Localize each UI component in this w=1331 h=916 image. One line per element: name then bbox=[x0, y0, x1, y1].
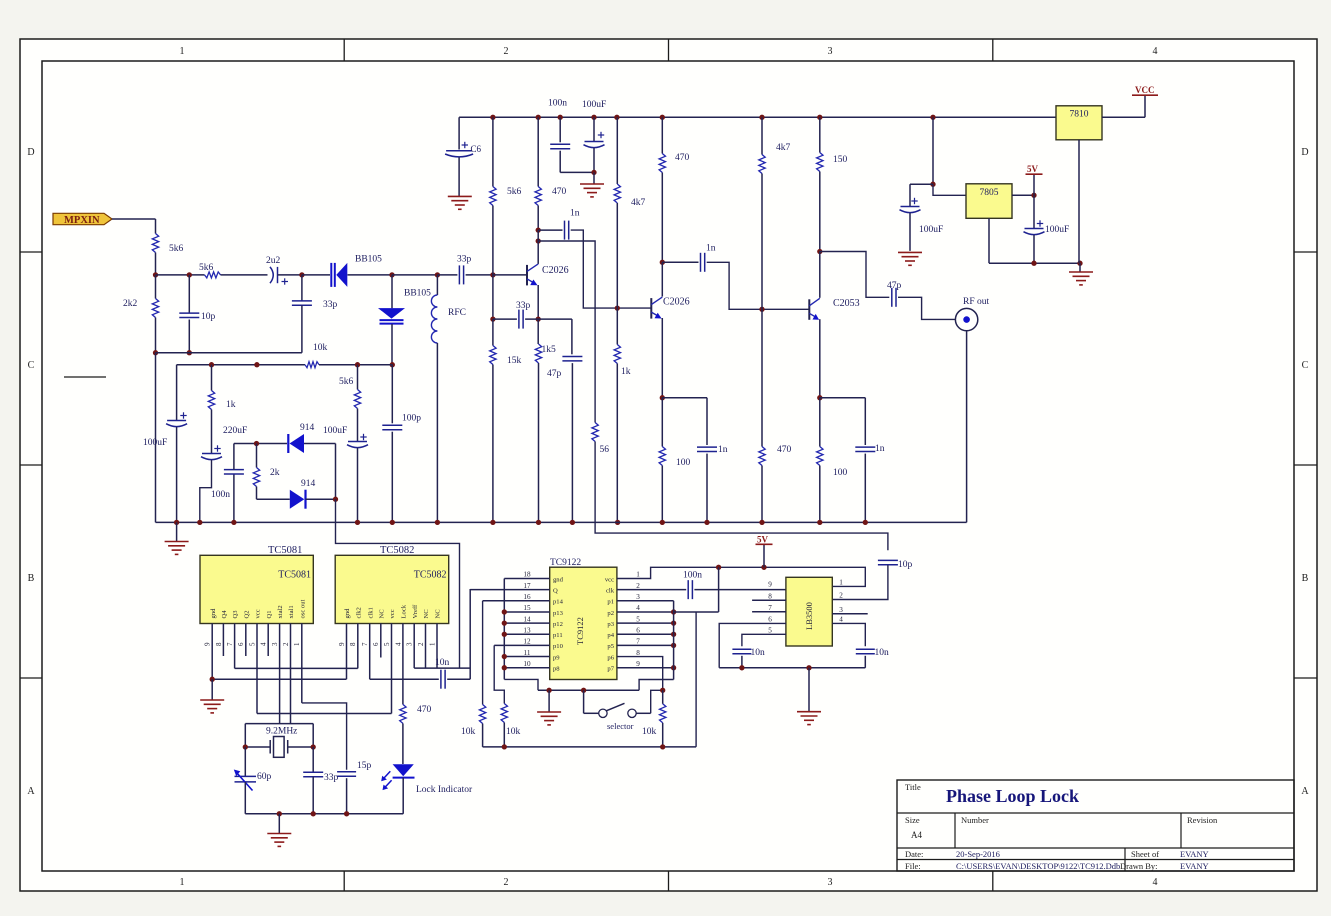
LED lock indicator bbox=[381, 764, 414, 790]
junction dot bbox=[153, 272, 158, 277]
junction dot bbox=[490, 316, 495, 321]
wire p10 to R 10k bbox=[494, 645, 504, 703]
wire TC9122 p3 bbox=[617, 622, 674, 624]
capacitor 10p sample bbox=[878, 560, 898, 564]
svg-text:1: 1 bbox=[839, 579, 843, 587]
wire regulator ground bbox=[989, 262, 1080, 264]
resistor 1k5 bbox=[535, 344, 541, 363]
wire 2u2 to node bbox=[278, 274, 302, 276]
svg-text:B: B bbox=[28, 573, 35, 584]
svg-text:100: 100 bbox=[676, 458, 691, 468]
junction dot bbox=[817, 249, 822, 254]
svg-text:100uF: 100uF bbox=[323, 426, 347, 436]
wire Vreff NC bus bbox=[414, 667, 470, 669]
junction dot bbox=[390, 520, 395, 525]
wire LB3500 pin 6 to bypass bus bbox=[719, 623, 786, 667]
wire 33p to 47p corner bbox=[525, 318, 572, 320]
wire crystal gnd stem bbox=[278, 814, 280, 833]
svg-text:470: 470 bbox=[552, 187, 567, 197]
wire 10n to bypass bus bbox=[864, 656, 866, 668]
junction dot bbox=[209, 362, 214, 367]
svg-text:1n: 1n bbox=[875, 444, 885, 454]
junction dot bbox=[536, 115, 541, 120]
wire 100n down bbox=[559, 151, 561, 173]
svg-text:B: B bbox=[1302, 573, 1309, 584]
capacitor 100uF left bbox=[166, 412, 187, 426]
junction dot bbox=[187, 272, 192, 277]
svg-text:4k7: 4k7 bbox=[776, 143, 791, 153]
svg-text:914: 914 bbox=[301, 479, 316, 489]
svg-text:2k: 2k bbox=[270, 468, 280, 478]
wire node to C 1n bbox=[538, 229, 562, 231]
svg-text:100uF: 100uF bbox=[582, 100, 606, 110]
resistor 470 lock LED bbox=[400, 704, 406, 723]
wire node to C 100uF reg in bbox=[910, 183, 933, 185]
svg-text:150: 150 bbox=[833, 155, 848, 165]
ground regulators bbox=[1069, 272, 1093, 285]
svg-text:Q1: Q1 bbox=[266, 610, 273, 618]
svg-text:10n: 10n bbox=[751, 648, 766, 658]
capacitor 1n bypass Q3 bbox=[855, 447, 875, 451]
resistor 4k7 Q2 base bbox=[614, 184, 620, 203]
junction dot bbox=[817, 115, 822, 120]
svg-text:9: 9 bbox=[338, 642, 346, 646]
svg-text:clk2: clk2 bbox=[355, 607, 362, 618]
svg-text:EVANY: EVANY bbox=[1180, 849, 1209, 859]
svg-text:7: 7 bbox=[768, 604, 772, 612]
ground LB3500 bbox=[797, 712, 821, 725]
wire node to Q1 base bbox=[493, 274, 527, 276]
junction dot bbox=[299, 272, 304, 277]
wire xtal left down bbox=[244, 724, 246, 747]
wire node to C 10p bbox=[188, 275, 190, 313]
wire 1k to ground bus bbox=[616, 364, 618, 523]
svg-text:p1: p1 bbox=[607, 599, 614, 606]
wire TC9122 p7 bbox=[617, 667, 674, 669]
connector RF out bbox=[955, 308, 977, 330]
wire 10p to LB3500 pin 2 bbox=[832, 565, 888, 600]
wire rail to R 470 bbox=[537, 117, 539, 186]
svg-text:5: 5 bbox=[248, 642, 256, 646]
wire 10p to node bbox=[188, 320, 190, 353]
wire BB105 to node bbox=[391, 324, 393, 365]
capacitor 100n decoupling bbox=[550, 144, 570, 148]
wire 1n to Q2 base bbox=[571, 230, 652, 308]
svg-text:C: C bbox=[1302, 360, 1309, 371]
capacitor 100uF reg output bbox=[1024, 220, 1045, 234]
junction dot bbox=[435, 520, 440, 525]
junction dot bbox=[536, 227, 541, 232]
svg-text:5: 5 bbox=[768, 627, 772, 635]
junction dot bbox=[660, 260, 665, 265]
wire row to C 47p bbox=[571, 319, 573, 354]
zone tick left bbox=[20, 464, 42, 466]
junction dot bbox=[153, 350, 158, 355]
power 5V bbox=[1026, 173, 1043, 175]
junction dot bbox=[671, 620, 676, 625]
svg-text:17: 17 bbox=[523, 582, 531, 590]
junction dot bbox=[210, 677, 215, 682]
svg-text:Date:: Date: bbox=[905, 849, 923, 859]
svg-text:470: 470 bbox=[675, 153, 690, 163]
junction dot bbox=[581, 688, 586, 693]
svg-text:2: 2 bbox=[636, 582, 640, 590]
wire Q3 collector to C 47p out bbox=[820, 252, 890, 298]
wire TC5081 gnd to TC5082 gnd bbox=[212, 678, 346, 680]
junction dot bbox=[759, 520, 764, 525]
svg-text:8: 8 bbox=[215, 642, 223, 646]
svg-text:5: 5 bbox=[636, 615, 640, 623]
svg-text:1: 1 bbox=[428, 642, 436, 646]
capacitor C6 100uF bbox=[445, 142, 473, 157]
wire select bus bbox=[538, 689, 639, 691]
svg-text:TC5082: TC5082 bbox=[380, 545, 414, 556]
wire node to Q1 collector bbox=[537, 230, 539, 263]
power VCC bbox=[1132, 94, 1158, 96]
svg-text:100n: 100n bbox=[683, 571, 702, 581]
svg-text:1n: 1n bbox=[570, 209, 580, 219]
wire 4k7 to Q2 base node bbox=[616, 203, 618, 308]
zone tick right bbox=[1294, 677, 1317, 679]
svg-text:15: 15 bbox=[523, 604, 531, 612]
wire node to Q2 collector bbox=[661, 262, 663, 296]
svg-text:p2: p2 bbox=[607, 610, 614, 617]
capacitor 2u2 polarized bbox=[270, 267, 288, 285]
varactor diode BB105 shunt bbox=[378, 308, 405, 324]
wire 5k6 to C 2u2 bbox=[221, 274, 268, 276]
wire 100n to LB3500 pin 9 bbox=[694, 589, 786, 591]
junction dot bbox=[591, 115, 596, 120]
capacitor 100uF decoupling bbox=[584, 132, 605, 148]
wire Q riser bbox=[469, 589, 471, 679]
junction dot bbox=[671, 632, 676, 637]
wire 10n to Q riser bbox=[447, 678, 470, 680]
wire RF socket shield to ground bus bbox=[966, 331, 968, 523]
wire clk1 to C 10n bbox=[370, 678, 439, 680]
wire 1n to Q3 base bbox=[707, 262, 810, 309]
resistor 100 emitter Q3 bbox=[817, 447, 823, 466]
port MPXIN bbox=[53, 213, 112, 226]
wire to switch pole bbox=[584, 712, 599, 714]
wire TC5081 pin 7 Q3 bbox=[234, 623, 236, 668]
svg-text:Title: Title bbox=[905, 782, 921, 792]
wire LB3500 pin 5 to C 10n bbox=[742, 634, 786, 646]
svg-text:12: 12 bbox=[523, 638, 531, 646]
junction dot bbox=[759, 115, 764, 120]
junction dot bbox=[311, 744, 316, 749]
zone tick bottom bbox=[992, 871, 994, 891]
wire base node down to R 470 bbox=[761, 309, 763, 446]
wire y=365 row left bbox=[177, 364, 305, 366]
junction dot bbox=[671, 643, 676, 648]
capacitor 33p xtal bbox=[303, 772, 323, 776]
svg-text:TC9122: TC9122 bbox=[550, 558, 581, 568]
transistor Q1 C2026 bbox=[527, 264, 569, 286]
wire node to R 56 bbox=[538, 241, 595, 423]
wire Q2 emitter down bbox=[661, 318, 663, 398]
svg-text:33p: 33p bbox=[516, 301, 531, 311]
wire TC5081 pin 5 vcc bbox=[256, 623, 258, 713]
wire node to C 1n bypass Q3 bbox=[820, 397, 866, 399]
svg-text:2k2: 2k2 bbox=[123, 299, 138, 309]
svg-text:10p: 10p bbox=[201, 312, 216, 322]
svg-text:Vreff: Vreff bbox=[412, 604, 419, 619]
resistor 470 collector Q1 bbox=[535, 187, 541, 206]
svg-text:vcc: vcc bbox=[605, 576, 614, 583]
resistor 5k6 input bbox=[152, 234, 158, 253]
wire ground stem bbox=[1079, 263, 1081, 271]
IC U LB3500 bbox=[786, 577, 832, 646]
svg-text:6: 6 bbox=[768, 616, 772, 624]
wire TC5081 pin 1 osc out bbox=[301, 623, 303, 703]
svg-text:C2053: C2053 bbox=[833, 298, 860, 309]
regulator U 7810 bbox=[1056, 106, 1102, 140]
svg-text:TC5082: TC5082 bbox=[414, 570, 447, 581]
diode 914 upper bbox=[288, 434, 304, 453]
wire switch to p6 line bbox=[651, 690, 663, 713]
junction dot bbox=[671, 609, 676, 614]
svg-text:5k6: 5k6 bbox=[507, 187, 522, 197]
wire node to C 33p xtal bbox=[312, 747, 314, 772]
junction dot bbox=[591, 170, 596, 175]
svg-text:470: 470 bbox=[417, 705, 432, 715]
wire 470 to LED bbox=[402, 723, 404, 764]
wire TC9122 p1 bbox=[617, 600, 674, 602]
svg-text:p7: p7 bbox=[607, 666, 614, 673]
wire crystal right bbox=[288, 746, 314, 748]
wire xtal right down bbox=[312, 724, 314, 747]
wire down to C 1n Q3 bbox=[864, 398, 866, 445]
capacitor 10n LB pin5 bbox=[732, 649, 751, 653]
wire TC5081 pin 6 Q2 stub bbox=[245, 623, 247, 656]
IC U TC9122 bbox=[550, 567, 617, 679]
svg-text:p11: p11 bbox=[553, 632, 563, 639]
wire rail to R 470 Q2 bbox=[661, 117, 663, 153]
svg-text:2: 2 bbox=[417, 642, 425, 646]
svg-text:1: 1 bbox=[180, 46, 185, 57]
svg-text:4: 4 bbox=[394, 642, 402, 646]
wire 100uF down bbox=[593, 148, 595, 172]
wire TC5082 pin 1 NC bbox=[436, 623, 438, 668]
wire right riser to select bus bbox=[639, 680, 674, 691]
wire TC9122 pin 18 gnd bbox=[504, 578, 549, 580]
svg-text:33p: 33p bbox=[324, 773, 339, 783]
wire 7805 ground pin bbox=[988, 218, 990, 263]
svg-text:100uF: 100uF bbox=[1045, 225, 1069, 235]
resistor 2k2 bbox=[152, 299, 158, 318]
wire 10k to pullup bus bbox=[482, 724, 484, 747]
resistor 5k6 shunt bbox=[354, 390, 360, 409]
wire node to R 100 bbox=[661, 398, 663, 447]
ground crystal bbox=[267, 834, 291, 847]
wire y=365 row right bbox=[319, 364, 392, 366]
wire row to R 5k6 shunt bbox=[357, 365, 359, 390]
capacitor 100uF mid bbox=[347, 434, 368, 448]
resistor 1k bbox=[208, 391, 214, 410]
wire select bus to switch bbox=[583, 690, 585, 713]
wire node to R 1k bbox=[616, 308, 618, 344]
wire 100n to diode row bbox=[233, 444, 235, 470]
wire Q3 to clk2 bbox=[235, 667, 358, 669]
capacitor 33p emitter bbox=[519, 310, 523, 329]
svg-text:3: 3 bbox=[828, 877, 833, 888]
svg-text:5: 5 bbox=[383, 642, 391, 646]
wire 2k to row B bbox=[256, 487, 258, 500]
svg-text:10k: 10k bbox=[642, 727, 657, 737]
wire TC5082 pin 4 Lock bbox=[402, 623, 404, 704]
junction dot bbox=[311, 811, 316, 816]
svg-text:4: 4 bbox=[636, 604, 640, 612]
svg-text:RFC: RFC bbox=[448, 308, 466, 318]
capacitor 10n LB pin4 bbox=[856, 649, 875, 653]
svg-text:A: A bbox=[1301, 786, 1309, 797]
svg-text:p8: p8 bbox=[553, 666, 560, 673]
svg-text:8: 8 bbox=[636, 649, 640, 657]
junction dot bbox=[660, 744, 665, 749]
wire osc out to C 15p bbox=[302, 703, 347, 770]
svg-text:EVANY: EVANY bbox=[1180, 861, 1209, 871]
wire rail to R 4k7 Q3 bbox=[761, 117, 763, 154]
wire stub left margin bbox=[64, 376, 106, 378]
svg-text:9: 9 bbox=[204, 642, 212, 646]
wire down to ground bus bbox=[155, 353, 157, 523]
junction dot bbox=[660, 115, 665, 120]
svg-text:C2026: C2026 bbox=[663, 297, 690, 308]
svg-text:3: 3 bbox=[636, 593, 640, 601]
svg-text:File:: File: bbox=[905, 861, 921, 871]
wire BB105 to node bbox=[348, 274, 393, 276]
svg-text:1k5: 1k5 bbox=[542, 345, 557, 355]
wire diode row B left bbox=[257, 498, 290, 500]
capacitor 33p coupling bbox=[459, 265, 463, 284]
svg-text:Q2: Q2 bbox=[243, 610, 250, 618]
resistor 100 emitter Q2 bbox=[659, 447, 665, 466]
IC U TC5081 bbox=[200, 555, 313, 623]
svg-text:220uF: 220uF bbox=[223, 426, 247, 436]
capacitor 10p bbox=[179, 313, 199, 317]
svg-text:5k6: 5k6 bbox=[169, 244, 184, 254]
wire TC9122 pin 10 p8 bbox=[504, 667, 549, 669]
wire bypass bus gnd stem bbox=[808, 668, 810, 711]
resistor 5k6 bias bbox=[490, 187, 496, 206]
wire TC9122 p4 bbox=[617, 633, 674, 635]
wire 4k7 to Q3 base node bbox=[761, 174, 763, 310]
svg-text:C2026: C2026 bbox=[542, 265, 569, 276]
capacitor 47p emitter bbox=[562, 357, 582, 361]
wire rail to R 150 bbox=[819, 117, 821, 152]
junction dot bbox=[490, 115, 495, 120]
junction dot bbox=[502, 609, 507, 614]
wire diode row B right bbox=[306, 498, 336, 500]
junction dot bbox=[558, 115, 563, 120]
wire TC9122 pin 13 p11 bbox=[504, 633, 549, 635]
svg-text:2: 2 bbox=[504, 46, 509, 57]
ground main bus bbox=[165, 542, 189, 555]
wire node to C 1n bypass bbox=[662, 397, 707, 399]
wire xtal top bbox=[245, 723, 313, 725]
wire 470 to collector node bbox=[661, 173, 663, 263]
svg-text:3: 3 bbox=[271, 642, 279, 646]
wire 7810 ground pin bbox=[1078, 140, 1080, 263]
wire node to Q3 collector bbox=[819, 252, 821, 298]
wire 15p to crystal bus bbox=[346, 778, 348, 814]
wire MPXIN to R 5k6 bbox=[112, 218, 156, 220]
wire y=353 row bbox=[156, 352, 302, 354]
svg-text:1: 1 bbox=[636, 571, 640, 579]
svg-text:LB3500: LB3500 bbox=[804, 602, 814, 630]
svg-text:10p: 10p bbox=[898, 560, 913, 570]
junction dot bbox=[863, 520, 868, 525]
wire TC5082 pin 5 vcc bbox=[391, 623, 393, 713]
zone tick left bbox=[20, 677, 42, 679]
wire 100 to ground bus bbox=[819, 466, 821, 523]
wire diode row A left bbox=[234, 443, 287, 445]
junction dot bbox=[660, 688, 665, 693]
svg-text:10k: 10k bbox=[461, 727, 476, 737]
svg-text:3: 3 bbox=[828, 46, 833, 57]
junction dot bbox=[174, 520, 179, 525]
wire 47p to RF socket bbox=[898, 297, 955, 319]
resistor 10k p14 bbox=[479, 705, 485, 724]
svg-text:6: 6 bbox=[636, 626, 640, 634]
svg-text:47p: 47p bbox=[887, 281, 902, 291]
wire TC5081 pin 2 xtal1 bbox=[290, 623, 292, 723]
trimmer capacitor 60p bbox=[234, 770, 256, 791]
junction dot bbox=[254, 441, 259, 446]
svg-text:4k7: 4k7 bbox=[631, 198, 646, 208]
svg-text:100: 100 bbox=[833, 468, 848, 478]
wire node to C 100p bbox=[391, 365, 393, 424]
resistor 10k p10 bbox=[501, 704, 507, 723]
svg-text:1: 1 bbox=[293, 642, 301, 646]
svg-text:7: 7 bbox=[636, 638, 640, 646]
wire TC5081 pin 8 Q4 stub bbox=[222, 623, 224, 656]
wire LB3500 pin 7 stub bbox=[752, 611, 786, 613]
wire to R 15k bbox=[492, 319, 494, 345]
junction dot bbox=[390, 362, 395, 367]
resistor 10k p6 bbox=[660, 704, 666, 723]
wire 10k pullup bus bbox=[483, 746, 696, 748]
svg-text:D: D bbox=[1301, 147, 1308, 158]
wire 220uF to ground bus bbox=[200, 460, 212, 522]
wire 470 to node bbox=[537, 206, 539, 231]
svg-text:11: 11 bbox=[524, 649, 531, 657]
wire 5V node to C 100uF out bbox=[1033, 195, 1035, 228]
wire 1k5 to ground bus bbox=[538, 363, 540, 522]
svg-text:gnd: gnd bbox=[210, 608, 217, 619]
wire TC9122 p6 to selector bbox=[617, 657, 663, 691]
svg-text:Number: Number bbox=[961, 815, 989, 825]
capacitor 100n clk bbox=[688, 580, 692, 599]
junction dot bbox=[660, 395, 665, 400]
junction dot bbox=[1031, 261, 1036, 266]
svg-text:15k: 15k bbox=[507, 356, 522, 366]
svg-text:7: 7 bbox=[226, 642, 234, 646]
wire TC5082 pin 2 NC bbox=[425, 623, 427, 668]
svg-text:TC5081: TC5081 bbox=[278, 570, 311, 581]
wire 5k6 to C 100uF bbox=[357, 409, 359, 442]
wire switch throw bbox=[636, 712, 651, 714]
wire 5V to p2 riser bbox=[718, 567, 720, 612]
wire LB3500 pin 3 stub bbox=[832, 613, 867, 615]
junction dot bbox=[546, 688, 551, 693]
svg-text:100uF: 100uF bbox=[919, 225, 943, 235]
svg-text:Size: Size bbox=[905, 815, 920, 825]
wire Q3 emitter down bbox=[819, 319, 821, 398]
svg-text:1n: 1n bbox=[706, 244, 716, 254]
junction dot bbox=[490, 272, 495, 277]
wire row to R 1k bbox=[211, 365, 213, 391]
